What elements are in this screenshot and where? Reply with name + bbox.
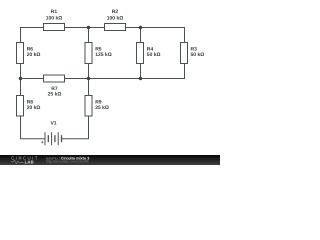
svg-text:25 kΩ: 25 kΩ [95,105,109,111]
node C [19,77,22,80]
svg-text:100 kΩ: 100 kΩ [46,15,63,21]
wire [89,78,141,80]
wire [141,28,185,43]
resistor R8 [17,96,41,117]
wire [141,64,185,79]
resistor R6 [17,43,41,64]
resistor R1 [44,9,65,31]
wire [20,79,22,96]
svg-text:25 kΩ: 25 kΩ [48,92,62,98]
svg-text:V1: V1 [50,121,56,127]
resistor R5 [85,43,112,64]
wire [88,64,90,79]
wire [65,78,89,80]
wire [65,27,89,29]
wire [21,78,44,80]
resistor R4 [137,43,161,64]
svg-text:100 kΩ: 100 kΩ [107,15,124,21]
footer caption text [45,156,89,163]
resistor R2 [105,9,126,31]
wire [21,28,44,43]
wire [88,79,90,96]
wire [140,64,142,79]
svg-text:125 kΩ: 125 kΩ [95,52,112,58]
node B [139,26,142,29]
wire [89,27,105,29]
svg-text:R2: R2 [112,9,119,15]
resistor R7 [44,75,65,98]
wire [62,116,89,139]
svg-text:50 kΩ: 50 kΩ [191,52,205,58]
resistor R9 [85,96,109,117]
svg-text:20 kΩ: 20 kΩ [27,105,41,111]
svg-text:20 kΩ: 20 kΩ [27,52,41,58]
node D [87,77,90,80]
wire [88,28,90,43]
CircuitLab logo [11,155,39,164]
node A [87,26,90,29]
svg-text:http://circuitlab.com/c/b23f6: http://circuitlab.com/c/b23f6 [46,160,89,164]
wire [140,28,142,43]
svg-text:50 kΩ: 50 kΩ [147,52,161,58]
footer bar [0,155,220,165]
resistor R3 [181,43,205,64]
battery V1 [41,121,61,146]
svg-text:LAB: LAB [25,159,34,164]
wire [20,64,22,79]
wire [21,116,45,139]
node E [139,77,142,80]
wire [126,27,141,29]
svg-text:R1: R1 [51,9,58,15]
